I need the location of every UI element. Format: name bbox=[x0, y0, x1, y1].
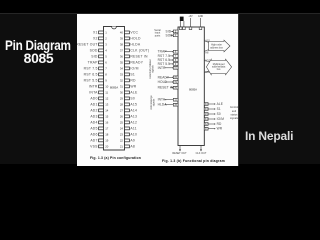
svg-text:AD3: AD3 bbox=[90, 114, 97, 118]
svg-text:Fig. 1.3 (a) Pin configuration: Fig. 1.3 (a) Pin configuration bbox=[90, 156, 141, 160]
svg-text:AD1: AD1 bbox=[90, 102, 97, 106]
pin 35 box (right) bbox=[125, 61, 130, 64]
wire IO/M bbox=[208, 118, 215, 120]
svg-text:IO/M: IO/M bbox=[130, 66, 138, 70]
svg-text:18: 18 bbox=[105, 132, 109, 136]
arrow out (S0) bbox=[214, 113, 215, 114]
signal WR pin 31 bbox=[204, 127, 208, 130]
arrow into chip (TRAP) bbox=[172, 51, 173, 52]
arrow out (S1) bbox=[214, 108, 215, 109]
svg-text:A15: A15 bbox=[130, 102, 137, 106]
pin 40 Vcc box bbox=[189, 27, 192, 30]
svg-text:RST 7.5: RST 7.5 bbox=[84, 66, 98, 70]
svg-text:39: 39 bbox=[120, 36, 124, 40]
wire WR bbox=[208, 128, 215, 130]
pin 9 box at U2 edge bbox=[173, 63, 178, 66]
signal RD pin 32 bbox=[204, 123, 208, 126]
arrow down CLK OUT bbox=[200, 149, 202, 151]
signal S0 pin 29 bbox=[204, 113, 208, 116]
pin 33 box (right) bbox=[125, 73, 130, 76]
svg-text:RST 6.5: RST 6.5 bbox=[84, 72, 98, 76]
wire READY bbox=[166, 76, 173, 78]
svg-text:Multiplexed: Multiplexed bbox=[213, 63, 225, 66]
pin 6 box (left) bbox=[99, 61, 104, 64]
pin 14 box (left) bbox=[99, 109, 104, 112]
arrow out (IO/M) bbox=[214, 118, 215, 119]
pin 11 box at U2 edge bbox=[173, 98, 178, 101]
svg-text:CLK (OUT): CLK (OUT) bbox=[130, 48, 149, 52]
arrow out of chip (SOD) bbox=[171, 35, 172, 36]
svg-text:TRAP: TRAP bbox=[88, 60, 98, 64]
svg-text:RESET OUT: RESET OUT bbox=[77, 42, 98, 46]
svg-text:24: 24 bbox=[120, 126, 124, 130]
pin 39 box (right) bbox=[125, 37, 130, 40]
notch at top of U1 bbox=[112, 27, 117, 29]
svg-text:S1: S1 bbox=[217, 107, 221, 111]
svg-text:IO/M: IO/M bbox=[217, 117, 225, 121]
svg-text:X1: X1 bbox=[93, 30, 98, 34]
svg-text:INTA: INTA bbox=[89, 90, 98, 94]
svg-text:AD6: AD6 bbox=[90, 132, 97, 136]
pin 23 box (right) bbox=[125, 133, 130, 136]
wire A15 stub bbox=[204, 41, 208, 43]
svg-text:RESET IN: RESET IN bbox=[130, 54, 148, 58]
wire HOLD bbox=[165, 81, 174, 83]
pin 19 box (left) bbox=[99, 139, 104, 142]
svg-text:A13: A13 bbox=[130, 114, 137, 118]
pin X2 box bbox=[183, 27, 186, 30]
pin 21 box (right) bbox=[125, 145, 130, 148]
wire RST 5.5 bbox=[169, 63, 173, 65]
arrow down RESET OUT bbox=[179, 149, 181, 151]
svg-text:A11: A11 bbox=[130, 126, 136, 130]
svg-text:READY: READY bbox=[130, 60, 143, 64]
pin 18 box (left) bbox=[99, 133, 104, 136]
pin 36 box (right) bbox=[125, 55, 130, 58]
pin 37 box (right) bbox=[125, 49, 130, 52]
svg-text:RESET OUT: RESET OUT bbox=[172, 152, 187, 155]
wire A8 stub bbox=[204, 50, 208, 52]
svg-text:37: 37 bbox=[120, 48, 124, 52]
wire SOD bbox=[171, 34, 174, 36]
svg-text:GND: GND bbox=[198, 15, 204, 18]
arrow out (WR) bbox=[214, 128, 215, 129]
svg-text:address/data: address/data bbox=[212, 66, 226, 69]
svg-text:35: 35 bbox=[120, 60, 124, 64]
svg-text:A10: A10 bbox=[130, 132, 137, 136]
wire RESET IN bbox=[170, 87, 173, 89]
wire CLK OUT (bottom) bbox=[200, 146, 202, 151]
pin 10 box at U2 edge bbox=[173, 66, 178, 69]
svg-text:signals: signals bbox=[230, 116, 239, 120]
pin 12 box (left) bbox=[99, 97, 104, 100]
svg-text:INTR: INTR bbox=[89, 84, 98, 88]
svg-text:AD4: AD4 bbox=[90, 120, 97, 124]
svg-text:30: 30 bbox=[120, 90, 124, 94]
arrow out (ALE) bbox=[214, 103, 215, 104]
svg-text:16: 16 bbox=[105, 120, 109, 124]
svg-text:S0: S0 bbox=[130, 96, 135, 100]
svg-text:Control: Control bbox=[230, 105, 239, 109]
arrow into chip (SID) bbox=[172, 31, 173, 32]
pin 31 box (right) bbox=[125, 85, 130, 88]
svg-text:33: 33 bbox=[120, 72, 124, 76]
crystal Y1 bbox=[180, 17, 184, 21]
svg-text:Fig. 1.3 (b) Functional pin di: Fig. 1.3 (b) Functional pin diagram bbox=[162, 159, 225, 163]
wire Vss bbox=[200, 18, 202, 27]
svg-text:address bus: address bus bbox=[210, 46, 223, 49]
svg-text:+5V: +5V bbox=[188, 15, 193, 18]
IC chip U2 8085A functional block bbox=[178, 27, 204, 146]
wire AD0 stub bbox=[204, 70, 210, 73]
arrow into chip (HOLD) bbox=[172, 81, 173, 82]
svg-text:12: 12 bbox=[105, 96, 109, 100]
svg-text:31: 31 bbox=[120, 84, 124, 88]
svg-text:RST 5.5: RST 5.5 bbox=[84, 78, 98, 82]
svg-text:20: 20 bbox=[105, 144, 109, 148]
svg-text:22: 22 bbox=[120, 138, 124, 142]
svg-text:26: 26 bbox=[120, 114, 124, 118]
pin 5 box (left) bbox=[99, 55, 104, 58]
wire X1 to crystal bbox=[180, 21, 182, 27]
pin 16 box (left) bbox=[99, 121, 104, 124]
pin 25 box (right) bbox=[125, 121, 130, 124]
svg-text:X2: X2 bbox=[93, 36, 98, 40]
page edge shadow line bbox=[238, 14, 239, 166]
svg-text:A9: A9 bbox=[130, 138, 135, 142]
svg-text:status: status bbox=[231, 112, 239, 116]
svg-text:S0: S0 bbox=[217, 112, 221, 116]
svg-text:A12: A12 bbox=[130, 120, 137, 124]
wire S1 bbox=[208, 108, 215, 110]
svg-text:28: 28 bbox=[120, 102, 124, 106]
wire S0 bbox=[208, 113, 215, 115]
pin 28 box (right) bbox=[125, 103, 130, 106]
pin 32 box (right) bbox=[125, 79, 130, 82]
wire SID bbox=[171, 30, 174, 32]
wire RESET OUT (bottom) bbox=[179, 146, 181, 151]
svg-text:19: 19 bbox=[105, 138, 109, 142]
pin 27 box (right) bbox=[125, 109, 130, 112]
pin 20 Vss box bbox=[199, 27, 202, 30]
svg-text:8085A: 8085A bbox=[189, 88, 197, 92]
pin 6 box at U2 edge bbox=[173, 50, 178, 53]
svg-text:ports: ports bbox=[155, 34, 161, 37]
svg-text:29: 29 bbox=[120, 96, 124, 100]
pin 5 box at U2 edge bbox=[173, 30, 178, 33]
arrow out (RD) bbox=[214, 123, 215, 124]
svg-text:AD5: AD5 bbox=[90, 126, 97, 130]
pin 7 box (left) bbox=[99, 67, 104, 70]
pin 39 box at U2 edge bbox=[173, 81, 178, 84]
svg-text:ALE: ALE bbox=[217, 102, 223, 106]
bus arrow high-order address bus bbox=[209, 40, 231, 52]
svg-text:CLK OUT: CLK OUT bbox=[196, 152, 207, 155]
arrow into chip (RST 5.5) bbox=[172, 63, 173, 64]
svg-text:RD: RD bbox=[130, 78, 136, 82]
wire TRAP bbox=[165, 51, 174, 53]
pin 3 box (left) bbox=[99, 43, 104, 46]
wire RST 6.5 bbox=[169, 59, 173, 61]
svg-text:10: 10 bbox=[105, 84, 109, 88]
arrow into chip (READY) bbox=[172, 77, 173, 78]
svg-text:AD0: AD0 bbox=[90, 96, 97, 100]
svg-text:27: 27 bbox=[120, 108, 124, 112]
pin 10 box (left) bbox=[99, 85, 104, 88]
svg-text:A14: A14 bbox=[130, 108, 137, 112]
pin 36 box at U2 edge bbox=[173, 86, 178, 89]
svg-text:A8: A8 bbox=[205, 52, 209, 55]
wire Vcc bbox=[190, 18, 192, 27]
pin 8 box (left) bbox=[99, 73, 104, 76]
svg-text:VSS: VSS bbox=[90, 144, 98, 148]
pin 7 box at U2 edge bbox=[173, 55, 178, 58]
pin 20 box (left) bbox=[99, 145, 104, 148]
pin 13 box (left) bbox=[99, 103, 104, 106]
pin 35 box at U2 edge bbox=[173, 76, 178, 79]
wire RD bbox=[208, 123, 215, 125]
pin 1 box (left) bbox=[99, 31, 104, 34]
pin X1 box bbox=[179, 27, 182, 30]
wire X2 to crystal bbox=[183, 21, 185, 27]
svg-text:S1: S1 bbox=[130, 72, 135, 76]
svg-text:VCC: VCC bbox=[130, 30, 138, 34]
signal ALE pin 30 bbox=[204, 103, 208, 106]
arrow into chip (INTR) bbox=[172, 67, 173, 68]
svg-text:11: 11 bbox=[105, 90, 108, 94]
svg-text:8085A: 8085A bbox=[110, 85, 118, 89]
pin 11 box (left) bbox=[99, 91, 104, 94]
pin 4 box at U2 edge bbox=[173, 34, 178, 37]
arrow into chip (RST 6.5) bbox=[172, 59, 173, 60]
arrow into chip (RESET IN) bbox=[172, 87, 173, 88]
wire AD7 stub bbox=[204, 61, 210, 62]
arrow out of chip (HLDA) bbox=[165, 104, 166, 105]
pin 30 box (right) bbox=[125, 91, 130, 94]
svg-text:High-order: High-order bbox=[211, 44, 222, 47]
arrow into chip (RST 7.5) bbox=[172, 55, 173, 56]
svg-text:32: 32 bbox=[120, 78, 124, 82]
svg-text:AD7: AD7 bbox=[90, 138, 97, 142]
pin 38 box (right) bbox=[125, 43, 130, 46]
svg-text:WR: WR bbox=[217, 127, 223, 131]
svg-text:38: 38 bbox=[120, 42, 124, 46]
wire INTA bbox=[165, 99, 174, 101]
wire RST 7.5 bbox=[169, 55, 173, 57]
svg-text:SID: SID bbox=[91, 54, 98, 58]
signal S1 pin 33 bbox=[204, 108, 208, 111]
arrow out of chip (INTA) bbox=[165, 99, 166, 100]
pin 40 box (right) bbox=[125, 31, 130, 34]
svg-text:15: 15 bbox=[105, 114, 109, 118]
bus arrow multiplexed address/data bus bbox=[206, 59, 231, 75]
svg-text:and: and bbox=[232, 109, 237, 113]
svg-text:AD2: AD2 bbox=[90, 108, 97, 112]
svg-text:21: 21 bbox=[120, 144, 124, 148]
svg-text:SOD: SOD bbox=[90, 48, 98, 52]
wire HLDA bbox=[165, 104, 174, 106]
pin 17 box (left) bbox=[99, 127, 104, 130]
svg-text:17: 17 bbox=[105, 126, 109, 130]
svg-text:13: 13 bbox=[105, 102, 109, 106]
IC chip U1 8085A DIP-40 body bbox=[104, 27, 125, 151]
svg-text:34: 34 bbox=[120, 66, 124, 70]
svg-text:ALE: ALE bbox=[130, 90, 138, 94]
svg-text:36: 36 bbox=[120, 54, 124, 58]
wire ALE bbox=[208, 103, 215, 105]
pin 24 box (right) bbox=[125, 127, 130, 130]
svg-text:14: 14 bbox=[105, 108, 109, 112]
pin 22 box (right) bbox=[125, 139, 130, 142]
pin 38 box at U2 edge bbox=[173, 103, 178, 106]
pin 26 box (right) bbox=[125, 115, 130, 118]
svg-text:signals: signals bbox=[152, 98, 155, 106]
svg-text:HLDA: HLDA bbox=[130, 42, 140, 46]
pin 34 box (right) bbox=[125, 67, 130, 70]
pin 2 box (left) bbox=[99, 37, 104, 40]
pin 8 box at U2 edge bbox=[173, 59, 178, 62]
pin 29 box (right) bbox=[125, 97, 130, 100]
svg-text:signals: signals bbox=[152, 64, 155, 72]
svg-text:A8: A8 bbox=[130, 144, 135, 148]
pin 4 box (left) bbox=[99, 49, 104, 52]
signal IO/M pin 34 bbox=[204, 118, 208, 121]
svg-text:40: 40 bbox=[120, 30, 124, 34]
pin 15 box (left) bbox=[99, 115, 104, 118]
svg-text:RD: RD bbox=[217, 122, 222, 126]
pin 9 box (left) bbox=[99, 79, 104, 82]
svg-text:25: 25 bbox=[120, 120, 124, 124]
wire INTR bbox=[165, 67, 174, 69]
svg-text:23: 23 bbox=[120, 132, 124, 136]
svg-text:HOLD: HOLD bbox=[130, 36, 141, 40]
svg-text:WR: WR bbox=[130, 84, 136, 88]
